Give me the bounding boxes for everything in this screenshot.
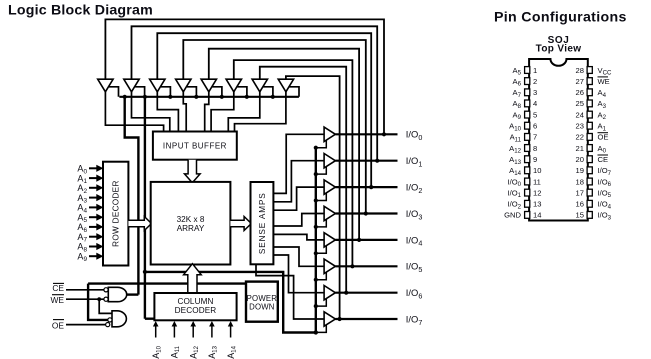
- node bus junction x=124.7: [123, 95, 127, 99]
- wire data from D4 into input buffer: [183, 91, 186, 133]
- output buffer triangle Q6: [324, 286, 335, 300]
- pin 28 pad right: [587, 67, 592, 74]
- input buffer triangle D5: [201, 79, 216, 92]
- wire I/O6 line: [335, 292, 397, 294]
- arrow input buffer to array: [185, 160, 201, 183]
- wire sense amp output 1 to output buffer 1: [273, 161, 325, 202]
- svg-text:14: 14: [533, 211, 541, 220]
- node bus junction x=144.9: [143, 95, 147, 99]
- pin 24 pad right: [587, 111, 592, 118]
- node junction enable-line bottom: [314, 330, 318, 334]
- pin 16 pad right: [587, 200, 592, 207]
- svg-text:18: 18: [576, 177, 584, 186]
- node junction loop 7 on I/O7 line: [338, 317, 342, 321]
- wire I/O0 feedback loop to input buffer 1: [105, 19, 384, 134]
- node enable junction 1: [314, 172, 318, 176]
- block POWER DOWN: [246, 282, 278, 322]
- svg-text:17: 17: [576, 188, 584, 197]
- node enable junction 6: [314, 304, 318, 308]
- svg-text:Top View: Top View: [536, 44, 582, 55]
- svg-text:15: 15: [576, 211, 584, 220]
- arrow array to sense amps: [230, 217, 251, 231]
- wire sense amp output 4 to output buffer 4: [273, 234, 325, 240]
- pin 23 pad right: [587, 122, 592, 129]
- wire I/O2 line: [335, 186, 397, 188]
- svg-text:12: 12: [533, 188, 541, 197]
- node junction loop 6 on I/O6 line: [344, 291, 348, 295]
- wire I/O5 feedback loop to input buffer 6: [234, 60, 353, 266]
- input buffer triangle D4: [176, 79, 191, 92]
- pin 12 pad left: [525, 189, 530, 196]
- wire A11 arrow into column decoder: [172, 321, 178, 338]
- wire sense amp output 3 to output buffer 3: [273, 214, 325, 227]
- wire control cross horizontal to power-down: [88, 282, 246, 284]
- wire I/O4 line: [335, 239, 397, 241]
- wire enable stub output buffer 2: [316, 193, 327, 201]
- wire output-enable route under array: [145, 272, 316, 333]
- wire sense amp output 2 to output buffer 2: [273, 187, 325, 210]
- svg-text:COLUMN: COLUMN: [177, 297, 213, 306]
- wire A10 arrow into column decoder: [153, 321, 159, 338]
- pin 7 pad left: [525, 134, 530, 141]
- svg-text:POWER: POWER: [247, 294, 278, 303]
- wire A5 arrow into row decoder: [89, 214, 103, 221]
- wire enable stub output buffer 4: [316, 246, 327, 254]
- wire I/O2 feedback loop to input buffer 3: [157, 33, 371, 187]
- node enable junction 7: [314, 330, 318, 334]
- wire into column decoder: [145, 318, 156, 320]
- node junction riser/output-enable: [143, 270, 147, 274]
- svg-text:27: 27: [576, 77, 584, 86]
- svg-text:2: 2: [533, 77, 537, 86]
- block INPUT BUFFER: [153, 132, 237, 160]
- input buffer triangle D1: [98, 79, 113, 92]
- wire sense amp output 0 to output buffer 0: [273, 134, 325, 193]
- gate G1 (CE/WE NAND) with input bubbles: [104, 287, 127, 301]
- wire I/O4 feedback loop to input buffer 5: [209, 49, 359, 240]
- pin 20 pad right: [587, 156, 592, 163]
- wire data from D3 into input buffer: [157, 91, 178, 133]
- svg-text:DOWN: DOWN: [249, 303, 275, 312]
- output buffer triangle Q2: [324, 180, 335, 194]
- label WE (active low): [51, 295, 65, 306]
- package body SOJ outline with notch: [529, 59, 588, 221]
- pin 22 pad right: [587, 134, 592, 141]
- wire I/O7 line: [335, 318, 397, 320]
- wire I/O3 line: [335, 212, 397, 214]
- svg-text:11: 11: [533, 177, 541, 186]
- output buffer triangle Q4: [324, 233, 335, 247]
- wire A3 arrow into row decoder: [89, 194, 103, 201]
- node enable junction 5: [314, 278, 318, 282]
- wire sense amp output 7 to output buffer 7: [256, 264, 325, 319]
- wire A12 arrow into column decoder: [190, 321, 196, 338]
- wire I/O1 feedback loop to input buffer 2: [132, 26, 378, 160]
- wire OE: [66, 324, 106, 326]
- svg-text:9: 9: [533, 155, 537, 164]
- svg-text:28: 28: [576, 66, 584, 75]
- svg-text:SENSE AMPS: SENSE AMPS: [258, 192, 267, 254]
- pin 25 pad right: [587, 100, 592, 107]
- input buffer triangle D8: [278, 79, 293, 92]
- pin 1 pad left: [525, 67, 530, 74]
- wire second riser (bus to G2 output): [144, 97, 146, 319]
- output buffer triangle Q3: [324, 206, 335, 220]
- output buffer triangle Q0: [324, 127, 335, 141]
- wire A9 arrow into row decoder: [89, 253, 103, 260]
- svg-text:13: 13: [533, 200, 541, 209]
- svg-text:CE: CE: [598, 155, 609, 164]
- wire I/O6 feedback loop to input buffer 7: [260, 67, 346, 293]
- svg-text:16: 16: [576, 200, 584, 209]
- node enable junction 3: [314, 225, 318, 229]
- pin 6 pad left: [525, 122, 530, 129]
- pin 8 pad left: [525, 145, 530, 152]
- node junction loop 4 on I/O4 line: [357, 238, 361, 242]
- wire A6 arrow into row decoder: [89, 223, 103, 230]
- wire enable stub output buffer 1: [316, 167, 327, 175]
- block SENSE AMPS: [251, 182, 274, 264]
- pin 26 pad right: [587, 89, 592, 96]
- wire I/O5 line: [335, 265, 397, 267]
- wire data from D7 into input buffer: [228, 91, 259, 133]
- node bus junction x=170.3: [168, 95, 172, 99]
- node bus junction x=221.8: [220, 95, 224, 99]
- svg-text:DECODER: DECODER: [175, 306, 217, 315]
- label CE (active low): [52, 283, 64, 293]
- svg-text:Logic Block Diagram: Logic Block Diagram: [8, 3, 153, 19]
- wire A1 arrow into row decoder: [89, 175, 103, 182]
- wire data from D8 into input buffer: [235, 91, 286, 133]
- label COLUMN DECODER: [175, 297, 217, 315]
- svg-text:19: 19: [576, 166, 584, 175]
- pin 2 pad left: [525, 78, 530, 85]
- wire enable step from D4 to input-enable bus: [187, 87, 197, 97]
- svg-text:24: 24: [576, 110, 584, 119]
- node bus junction x=246.8: [245, 95, 249, 99]
- node junction loop 3 on I/O3 line: [364, 211, 368, 215]
- wire enable stub output buffer 7: [316, 325, 327, 333]
- svg-text:OE: OE: [52, 320, 65, 330]
- svg-text:25: 25: [576, 99, 584, 108]
- pin 27 pad right: [587, 78, 592, 85]
- svg-text:23: 23: [576, 122, 584, 131]
- arrow column decoder to array: [184, 264, 202, 293]
- wire branch down to G2 input: [88, 284, 108, 320]
- wire A8 arrow into row decoder: [89, 243, 103, 250]
- wire A7 arrow into row decoder: [89, 233, 103, 240]
- output buffer triangle Q5: [324, 259, 335, 273]
- wire I/O0 line: [335, 133, 397, 135]
- svg-text:22: 22: [576, 133, 584, 142]
- pin 14 pad left: [525, 212, 530, 219]
- wire output-enable vertical line: [315, 148, 317, 333]
- label POWER DOWN: [247, 294, 278, 312]
- svg-text:1: 1: [533, 66, 537, 75]
- svg-text:32K x 8: 32K x 8: [177, 215, 205, 224]
- wire enable stub output buffer 3: [316, 219, 327, 227]
- input buffer triangle D7: [252, 79, 267, 92]
- block 32K x 8 ARRAY: [151, 182, 231, 265]
- node enable junction 4: [314, 251, 318, 255]
- svg-text:INPUT BUFFER: INPUT BUFFER: [163, 141, 227, 150]
- wire enable stub output buffer 5: [316, 272, 327, 280]
- wire data from D1 into input buffer: [105, 91, 163, 133]
- wire gate G1 output to riser: [127, 293, 139, 295]
- input buffer triangle D3: [150, 79, 165, 92]
- pin 3 pad left: [525, 89, 530, 96]
- svg-text:7: 7: [533, 133, 537, 142]
- svg-text:10: 10: [533, 166, 541, 175]
- wire enable stub output buffer 0: [316, 140, 327, 148]
- wire write-enable riser (bus to CE/WE gate) with jog: [125, 97, 139, 295]
- pin 11 pad left: [525, 178, 530, 185]
- pin 13 pad left: [525, 200, 530, 207]
- node junction loop 5 on I/O5 line: [350, 264, 354, 268]
- pin 9 pad left: [525, 156, 530, 163]
- output buffer triangle Q7: [324, 312, 335, 326]
- wire input-enable bus: [119, 96, 299, 98]
- block ROW DECODER: [103, 162, 128, 266]
- svg-text:OE: OE: [598, 133, 609, 142]
- pin 15 pad right: [587, 212, 592, 219]
- pin 10 pad left: [525, 167, 530, 174]
- svg-text:WE: WE: [598, 77, 610, 86]
- wire A13 arrow into column decoder: [209, 321, 215, 338]
- svg-text:4: 4: [533, 99, 537, 108]
- wire I/O1 line: [335, 160, 397, 162]
- svg-text:Pin Configurations: Pin Configurations: [494, 10, 627, 26]
- svg-text:20: 20: [576, 155, 584, 164]
- svg-text:6: 6: [533, 122, 537, 131]
- wire A4 arrow into row decoder: [89, 204, 103, 211]
- wire data from D5 into input buffer: [205, 91, 209, 133]
- pin 5 pad left: [525, 111, 530, 118]
- pin 19 pad right: [587, 167, 592, 174]
- input buffer triangle D2: [124, 79, 139, 92]
- node enable junction 2: [314, 198, 318, 202]
- wire enable step from D2 to input-enable bus: [135, 87, 145, 97]
- wire A2 arrow into row decoder: [89, 184, 103, 191]
- wire sense amp output 5 to output buffer 5: [273, 247, 325, 266]
- node junction loop 0 on I/O0 line: [382, 132, 386, 136]
- pin 18 pad right: [587, 178, 592, 185]
- wire WE: [66, 298, 104, 300]
- svg-text:WE: WE: [51, 295, 65, 305]
- arrow row decoder to array: [128, 217, 151, 231]
- output buffer triangle Q1: [324, 154, 335, 168]
- svg-text:21: 21: [576, 144, 584, 153]
- wire I/O7 feedback loop to input buffer 8: [286, 76, 340, 319]
- wire sense amp output 6 to output buffer 6: [273, 255, 325, 293]
- wire A0 arrow into row decoder: [89, 165, 103, 172]
- wire enable step from D5 to input-enable bus: [212, 87, 222, 97]
- node bus junction x=196.3: [194, 95, 198, 99]
- svg-text:8: 8: [533, 144, 537, 153]
- label 32K x 8 ARRAY: [177, 215, 205, 233]
- svg-text:ARRAY: ARRAY: [177, 224, 205, 233]
- pin 4 pad left: [525, 100, 530, 107]
- wire enable stub output buffer 6: [316, 299, 327, 307]
- node WE branch junction: [97, 297, 101, 301]
- wire A14 arrow into column decoder: [228, 321, 234, 338]
- wire data from D2 into input buffer: [132, 91, 170, 133]
- svg-text:3: 3: [533, 88, 537, 97]
- input buffer triangle D6: [226, 79, 241, 92]
- wire enable step from D8 to input-enable bus: [290, 87, 300, 97]
- svg-text:CE: CE: [52, 283, 64, 293]
- wire enable step from D1 to input-enable bus: [109, 87, 119, 97]
- label OE (active low): [52, 320, 65, 331]
- svg-text:ROW DECODER: ROW DECODER: [112, 180, 121, 247]
- wire I/O3 feedback loop to input buffer 4: [183, 40, 365, 214]
- wire CE: [66, 289, 104, 291]
- node enable junction 0: [314, 146, 318, 150]
- pin 21 pad right: [587, 145, 592, 152]
- pin 17 pad right: [587, 189, 592, 196]
- wire data from D6 into input buffer: [211, 91, 234, 133]
- svg-text:26: 26: [576, 88, 584, 97]
- wire enable step from D7 to input-enable bus: [263, 87, 273, 97]
- wire enable step from D3 to input-enable bus: [161, 87, 171, 97]
- svg-text:5: 5: [533, 110, 537, 119]
- block COLUMN DECODER: [154, 293, 236, 320]
- wire enable step from D6 to input-enable bus: [237, 87, 247, 97]
- gate G2 (output enable AND) with input bubbles: [106, 311, 127, 327]
- node junction loop 2 on I/O2 line: [369, 185, 373, 189]
- node bus junction x=272.8: [271, 95, 275, 99]
- node junction loop 1 on I/O1 line: [375, 159, 379, 163]
- svg-text:GND: GND: [504, 211, 521, 220]
- wire WE branch to G2: [99, 299, 112, 313]
